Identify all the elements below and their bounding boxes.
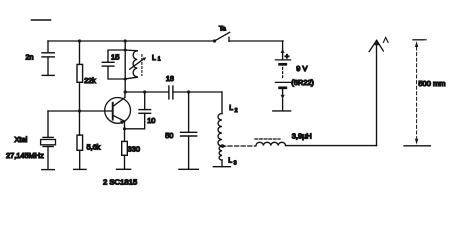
wire tap dashed [228,145,256,147]
crystal Xtal 27,145MHz [6,135,56,169]
node collector junction [124,90,127,93]
svg-text:9 V: 9 V [296,64,307,73]
inductor L2 [218,105,238,146]
svg-text:5,6k: 5,6k [87,142,101,151]
wire mid right (cap 18 to L2 corner) [173,91,222,93]
wire mid (collector to cap 18) [125,91,168,93]
wire cap 2n top lead [47,41,49,53]
svg-text:500 mm: 500 mm [418,79,445,88]
wire L2 top lead [221,92,223,114]
node emitter/cap10 junction [123,127,126,130]
svg-text:(6R22): (6R22) [291,78,314,87]
svg-text:L: L [152,55,156,62]
node tank bottom [124,78,127,81]
inductor L3 [213,146,236,167]
svg-text:Ta: Ta [219,26,226,33]
node cap 50 tap [187,90,190,93]
node cap 10 tap [143,90,146,93]
wire tank vertical [124,41,126,92]
switch Ta [213,26,230,43]
svg-text:10: 10 [147,116,155,125]
svg-text:Xtal: Xtal [15,135,28,144]
capacitor 15 (tank, left branch) [102,50,125,79]
resistor 22k [77,64,96,111]
dimension 500 mm [404,40,445,146]
node L2/L3 tap [221,144,224,147]
svg-text:1: 1 [158,57,161,63]
inductor 3,9uH [255,131,312,145]
svg-text:18: 18 [166,74,174,83]
svg-text:22k: 22k [84,76,96,85]
node rail/tank junction [124,39,127,42]
svg-text:2: 2 [235,108,238,114]
capacitor 50 [165,92,198,169]
wire to antenna [286,145,377,147]
node base/bias junction [78,109,81,112]
wire 22k top lead [79,41,81,64]
svg-text:2n: 2n [26,53,34,62]
svg-text:15: 15 [111,52,119,61]
capacitor 18 [166,74,174,99]
inductor L1 (tank, right branch, tunable) [125,50,161,79]
wire top rail left (V+ rail to switch) [48,40,215,42]
svg-text:2 SC1815: 2 SC1815 [103,177,137,186]
node rail/22k junction [78,39,81,42]
wire top rail right (switch to battery) [229,40,283,42]
svg-text:3: 3 [234,161,237,167]
svg-text:330: 330 [128,145,140,154]
title dash mark [32,19,51,21]
svg-text:3,9µH: 3,9µH [292,131,312,140]
battery 9V 6R22 [273,41,314,111]
svg-text:L: L [228,157,232,164]
antenna [369,37,388,145]
svg-text:50: 50 [165,131,173,140]
resistor 330 [117,141,140,169]
wire base left + crystal lead [47,111,49,137]
transistor Q1 2SC1815 [48,92,131,141]
node tank top [124,49,127,52]
svg-text:27,145MHz: 27,145MHz [6,151,44,160]
svg-text:L: L [229,105,233,112]
capacitor 10 [125,92,156,129]
capacitor 2n [26,53,55,76]
resistor 5,6k [74,111,101,169]
